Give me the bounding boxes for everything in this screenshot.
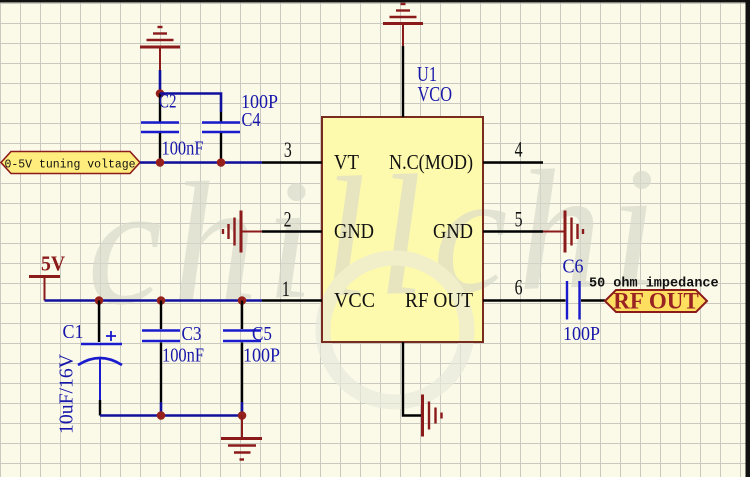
svg-text:2: 2 [284,208,292,232]
op-amp U1 body [83,117,669,402]
node junction C3 rail [157,296,166,305]
wire VCC rail [45,299,263,302]
pin 8 hidden bottom wire [403,342,422,416]
svg-text:GND: GND [334,219,374,243]
ground top center [383,4,423,46]
pin 4 number [515,138,523,162]
ground bottom rail [221,416,262,460]
pin 5 number [515,208,523,232]
wire gnd to C2 [159,70,162,94]
svg-text:100nF: 100nF [162,345,204,367]
svg-text:VCO: VCO [418,82,453,106]
node junction C2 top [156,89,165,98]
pin 2 [262,230,322,232]
svg-text:RF OUT: RF OUT [613,289,698,314]
node junction C5 rail [238,296,247,305]
svg-text:C3: C3 [182,323,202,345]
svg-text:5: 5 [515,208,523,232]
svg-text:10uF/16V: 10uF/16V [56,353,78,434]
svg-text:N.C(MOD): N.C(MOD) [389,150,473,174]
pin 6 [483,299,543,301]
pin 1 number [282,278,290,302]
ground bottom chip sideways [423,395,442,437]
svg-text:VCC: VCC [334,288,375,312]
node junction C3 bottom [157,411,166,420]
svg-text:C5: C5 [252,323,272,345]
ground top left [140,27,180,70]
pin 1 [262,299,322,301]
right window border [746,0,750,477]
capacitor C2 [141,94,179,163]
power 5V [29,252,65,301]
top window border [0,0,750,3]
node junction port wire C4 [217,158,226,167]
wire bottom rail [100,414,242,417]
watermark [83,132,669,402]
svg-text:C4: C4 [242,109,261,131]
capacitor C1 polarized [78,301,122,416]
pin 3 number [284,139,292,163]
svg-text:GND: GND [433,219,473,243]
svg-text:1: 1 [282,278,290,302]
capacitor C5 [223,301,261,416]
node junction port wire C2 [156,158,165,167]
svg-text:3: 3 [284,139,292,163]
svg-text:VT: VT [334,150,359,174]
svg-text:6: 6 [515,276,523,300]
pin 4 [483,161,543,163]
capacitor C4 [202,112,240,163]
svg-text:100P: 100P [243,345,280,367]
svg-text:4: 4 [515,138,523,162]
capacitor C3 [142,301,180,416]
svg-text:C1: C1 [63,321,84,343]
ground pin5 sideways [543,211,583,253]
port RF OUT [605,289,707,314]
pin 6 number [515,276,523,300]
node junction C1 rail [95,296,104,305]
pin 7 hidden top [402,46,404,117]
pin 2 number [284,208,292,232]
pin 5 [483,230,543,232]
svg-text:0-5V tuning voltage: 0-5V tuning voltage [4,159,135,172]
wire C2 to C4 top [160,94,221,113]
node junction C5 bottom [238,411,247,420]
pin 3 [262,161,322,163]
svg-text:5V: 5V [41,252,65,276]
svg-text:100P: 100P [563,323,600,345]
wire port to pin 3 [140,161,262,164]
svg-text:C6: C6 [563,256,584,278]
svg-text:100nF: 100nF [162,138,204,160]
capacitor C6 sideways [543,281,605,320]
ground pin2 sideways [223,211,262,253]
svg-text:RF OUT: RF OUT [405,288,473,312]
port 0-5V tuning voltage [1,152,140,174]
